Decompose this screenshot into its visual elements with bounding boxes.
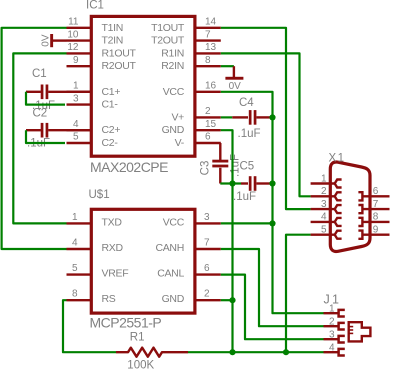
IC1 pin 1 C1+ (left stub + number) [67, 81, 92, 92]
junction U$1 GND [229, 297, 235, 303]
wire net VCC vertical: IC1 pin 16 down to J1 pin 1 [221, 92, 324, 313]
svg-text:1: 1 [72, 212, 78, 223]
svg-text:6: 6 [204, 263, 210, 274]
wire C1 left plate to IC1 pin 3 (C1-) [26, 92, 65, 105]
svg-text:VREF: VREF [102, 268, 129, 280]
svg-text:7: 7 [205, 29, 211, 40]
junction C4/VCC [269, 114, 275, 120]
C4 name label [239, 97, 254, 109]
IC1 pin 15 GND (right stub + number) [195, 119, 221, 130]
svg-text:2: 2 [321, 186, 327, 197]
C2 name label [33, 107, 48, 119]
svg-text:C1: C1 [32, 68, 47, 80]
U$1 right pin names [155, 216, 184, 305]
svg-text:9: 9 [373, 225, 379, 236]
svg-text:1: 1 [329, 303, 335, 314]
IC1 pin 4 C2+ (left stub + number) [67, 119, 92, 130]
svg-text:8: 8 [205, 55, 211, 66]
svg-text:15: 15 [205, 119, 217, 130]
X1 pin 3 (left stub + number + contact) [311, 199, 342, 213]
IC1 pin 12 R1OUT (left stub + number) [67, 42, 92, 53]
svg-text:7: 7 [373, 199, 379, 210]
svg-text:CANH: CANH [155, 242, 184, 254]
capacitor C1 [26, 85, 91, 100]
U$1 pin 1 TXD (left stub + number) [67, 212, 92, 224]
J1 plug icon (RJ jack) [349, 322, 371, 341]
IC1 pin 16 VCC (right stub + number) [195, 81, 221, 92]
wire net R1IN: IC1 pin 13 to X1 pin 2 [221, 53, 311, 196]
IC1 pin 9 R2OUT (left stub + number) [67, 55, 92, 66]
U$1 value label MCP2551-P [90, 314, 162, 330]
svg-text:2: 2 [205, 106, 211, 117]
svg-text:4: 4 [329, 342, 335, 353]
svg-text:R2IN: R2IN [161, 60, 184, 72]
svg-text:100K: 100K [127, 360, 154, 372]
svg-text:V+: V+ [171, 111, 184, 123]
capacitor C4 [232, 110, 272, 125]
C3 value .1uF (rotated) [229, 154, 241, 177]
X1 pin 8 (right stub + number + contact) [358, 212, 389, 226]
svg-text:VCC: VCC [163, 86, 185, 98]
wire net T1OUT: IC1 pin 14 to X1 pin 3 [221, 28, 311, 209]
J1 pin 2 (stub + number + contact) [324, 316, 345, 329]
svg-text:MCP2551-P: MCP2551-P [90, 314, 162, 330]
capacitor C5 [241, 176, 273, 191]
IC1 right pin names [151, 22, 185, 149]
wire net CANH: U$1 pin 7 to J1 pin 2 [221, 249, 324, 326]
connector J1 name label [324, 292, 342, 306]
svg-text:4: 4 [73, 119, 79, 130]
J1 pin 4 (stub + number + contact) [324, 342, 345, 355]
svg-text:.1uF: .1uF [233, 191, 256, 203]
wire net CANL: U$1 pin 6 to J1 pin 3 [221, 275, 324, 340]
junction U$1 VCC [269, 220, 275, 226]
wire IC1 pin 2 V+ to C4 [221, 116, 232, 118]
svg-text:C4: C4 [239, 97, 254, 109]
wire bottom GND rail: R1 right to J1 pin 4 [188, 351, 324, 353]
C4 value .1uF [238, 128, 261, 140]
U$1 pin 7 CANH (right stub + number) [195, 237, 221, 249]
svg-text:.1uF: .1uF [238, 128, 261, 140]
svg-text:C1-: C1- [102, 99, 119, 111]
capacitor C2 [26, 123, 91, 138]
IC1 pin 14 T1OUT (right stub + number) [195, 17, 221, 28]
svg-text:C2: C2 [33, 107, 48, 119]
svg-text:6: 6 [373, 186, 379, 197]
svg-text:3: 3 [329, 329, 335, 340]
svg-text:GND: GND [162, 293, 185, 305]
junction X1.5/GND rail [283, 349, 289, 355]
svg-text:16: 16 [205, 81, 217, 92]
X1 pin 2 (left stub + number + contact) [311, 186, 342, 200]
svg-text:4: 4 [72, 237, 78, 248]
svg-text:TXD: TXD [102, 216, 123, 228]
svg-text:C5: C5 [240, 161, 255, 173]
svg-text:8: 8 [373, 212, 379, 223]
svg-text:5: 5 [72, 263, 78, 274]
IC1 pin 3 C1- (left stub + number) [67, 93, 92, 104]
C5 value .1uF [233, 191, 256, 203]
X1 pin 1 (left stub + number + contact) [311, 173, 342, 187]
U$1 pin 8 RS (left stub + number) [67, 289, 92, 301]
svg-text:RXD: RXD [102, 242, 124, 254]
svg-text:R1IN: R1IN [161, 47, 184, 59]
R1 value 100K [127, 360, 154, 372]
IC IC1 body (MAX202CPE) [91, 16, 195, 156]
C2 value .1uF [27, 138, 50, 150]
junction GND rail [229, 349, 235, 355]
svg-text:C3: C3 [199, 161, 211, 176]
svg-text:13: 13 [205, 42, 217, 53]
svg-text:C2+: C2+ [102, 124, 121, 136]
resistor R1 [116, 348, 188, 357]
wire net X1 pin 5 to GND rail [286, 235, 311, 353]
J1 pin 1 (stub + number + contact) [324, 303, 345, 316]
svg-text:GND: GND [162, 124, 185, 136]
svg-text:R1: R1 [130, 332, 145, 344]
IC1 pin 10 T2IN (left stub + number) [67, 29, 92, 40]
capacitor C3 (vertical) [212, 143, 228, 184]
svg-text:8: 8 [72, 289, 78, 300]
U$1 pin 4 RXD (left stub + number) [67, 237, 92, 249]
U$1 name label [89, 189, 110, 201]
svg-text:5: 5 [73, 132, 79, 143]
C5 name label [240, 161, 255, 173]
C1 value .1uF [32, 100, 55, 112]
svg-text:C2-: C2- [102, 137, 119, 149]
U$1 pin 6 CANL (right stub + number) [195, 263, 221, 275]
IC1 pin 8 R2IN (right stub + number) [195, 55, 221, 66]
junction C3-C5/GND [229, 180, 235, 186]
svg-text:2: 2 [204, 289, 210, 300]
X1 pin 6 (right stub + number + contact) [358, 186, 389, 200]
svg-text:R2OUT: R2OUT [102, 60, 137, 72]
svg-text:R1OUT: R1OUT [102, 47, 137, 59]
svg-text:T1OUT: T1OUT [151, 22, 185, 34]
U$1 pin 3 VCC (right stub + number) [195, 212, 221, 224]
svg-text:6: 6 [205, 132, 211, 143]
svg-text:V-: V- [175, 137, 185, 149]
IC1 pin 7 T2OUT (right stub + number) [195, 29, 221, 40]
svg-text:IC1: IC1 [86, 0, 104, 12]
X1 pin 9 (right stub + number + contact) [358, 225, 389, 239]
X1 pin 4 (left stub + number + contact) [311, 212, 342, 226]
X1 pin 7 (right stub + number + contact) [358, 199, 389, 213]
svg-text:9: 9 [73, 55, 79, 66]
svg-text:U$1: U$1 [89, 189, 110, 201]
IC U$1 body (MCP2551-P) [91, 209, 195, 313]
C3 name label (rotated) [199, 161, 211, 176]
svg-text:12: 12 [67, 42, 79, 53]
wire net T1IN: IC1 pin 11 to U$1 RXD [2, 28, 67, 249]
svg-text:T2OUT: T2OUT [151, 35, 185, 47]
U$1 pin 2 GND (right stub + number) [195, 289, 221, 301]
svg-text:VCC: VCC [163, 216, 185, 228]
svg-text:0V: 0V [41, 34, 52, 47]
svg-text:7: 7 [204, 237, 210, 248]
svg-text:3: 3 [73, 93, 79, 104]
svg-text:1: 1 [73, 81, 79, 92]
J1 pin 3 (stub + number + contact) [324, 329, 345, 342]
svg-text:T1IN: T1IN [102, 22, 124, 34]
X1 name label [329, 152, 346, 164]
svg-text:3: 3 [321, 199, 327, 210]
U$1 left pin names [102, 216, 129, 305]
svg-text:4: 4 [321, 212, 327, 223]
svg-text:0V: 0V [229, 81, 242, 92]
svg-text:5: 5 [321, 225, 327, 236]
wire U$1 GND pin 2 to GND vertical [221, 299, 233, 301]
svg-text:3: 3 [204, 212, 210, 223]
svg-text:CANL: CANL [157, 268, 184, 280]
svg-text:11: 11 [68, 17, 79, 28]
svg-text:2: 2 [329, 316, 335, 327]
R1 name label [130, 332, 145, 344]
svg-text:10: 10 [67, 29, 79, 40]
wire net R1OUT: IC1 pin 12 to U$1 TXD [13, 53, 66, 223]
svg-text:X1: X1 [329, 152, 346, 164]
IC1 value label MAX202CPE [90, 159, 168, 175]
IC1 pin 11 T1IN (left stub + number) [67, 17, 92, 28]
junction C5/VCC [269, 180, 275, 186]
wire C2 left plate to IC1 pin 5 (C2-) [26, 130, 65, 143]
svg-text:C1+: C1+ [102, 86, 121, 98]
IC1 pin 5 C2- (left stub + number) [67, 132, 92, 143]
wire U$1 VCC pin 3 to VCC vertical [221, 222, 273, 224]
IC1 name label [86, 0, 104, 12]
supply symbol 0V at IC1 pin 8 (R2IN) [221, 66, 244, 92]
U$1 pin 5 VREF (left stub + number) [67, 263, 92, 275]
connector X1 DB9 outline [330, 162, 370, 251]
svg-text:RS: RS [102, 293, 116, 305]
wire C3 bottom / GND vertical to C5 left [220, 182, 241, 184]
wire net RS: U$1 pin 8 down to R1 left [63, 300, 116, 352]
IC1 pin 2 V+ (right stub + number) [195, 106, 221, 117]
wire net GND vertical: IC1 pin 15 down to bottom rail [221, 130, 233, 352]
svg-text:MAX202CPE: MAX202CPE [90, 159, 168, 175]
X1 pin 5 (left stub + number + contact) [311, 225, 342, 239]
svg-text:T2IN: T2IN [102, 35, 124, 47]
IC1 pin 13 R1IN (right stub + number) [195, 42, 221, 53]
IC1 left pin names [102, 22, 137, 149]
svg-text:1: 1 [321, 173, 327, 184]
supply symbol 0V at IC1 pin 10 (T2IN), rotated [41, 34, 67, 47]
svg-text:14: 14 [205, 17, 217, 28]
C1 name label [32, 68, 47, 80]
IC1 pin 6 V- (right stub + number) [195, 132, 221, 143]
